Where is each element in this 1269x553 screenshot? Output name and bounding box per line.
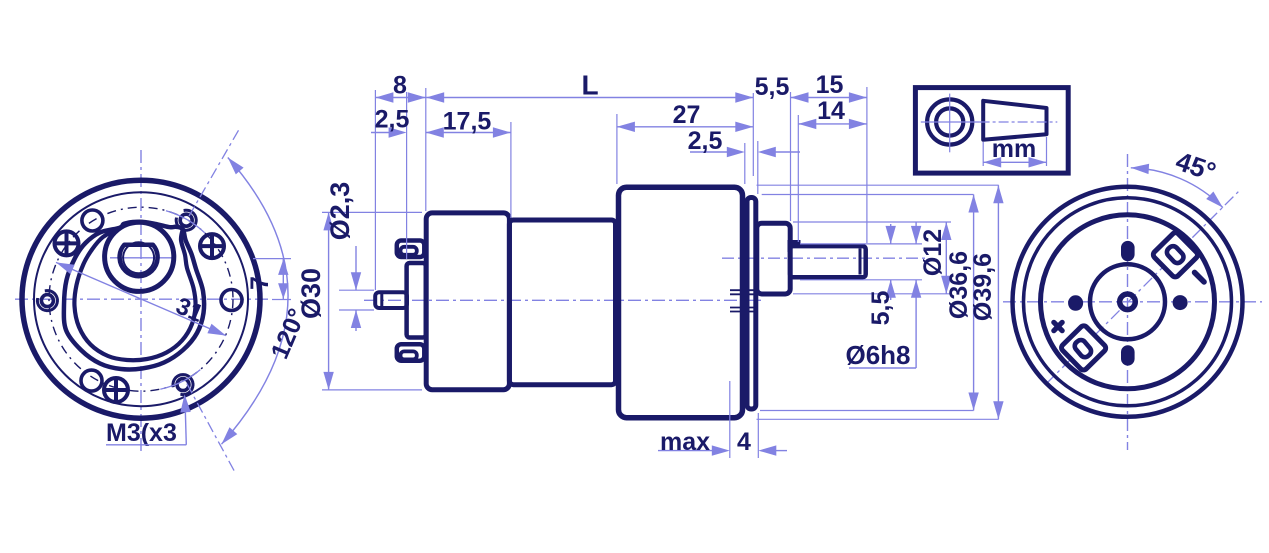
gearbox body — [619, 187, 743, 418]
label 27 — [673, 101, 701, 129]
rear shaft — [375, 292, 407, 308]
svg-text:7: 7 — [246, 276, 274, 290]
svg-text:8: 8 — [393, 72, 407, 100]
ext line gearbox bottom — [757, 418, 999, 420]
svg-text:27: 27 — [673, 101, 701, 129]
ext line shaft end — [866, 87, 868, 243]
output axis centerline — [722, 257, 928, 259]
motor can circle — [1041, 215, 1215, 389]
bolt circle (PCD 31) dashed — [49, 207, 233, 391]
terminal slot negative — [1165, 244, 1186, 265]
svg-text:max: max — [660, 428, 710, 456]
svg-text:4: 4 — [737, 428, 751, 456]
svg-text:15: 15 — [816, 71, 844, 99]
gear cavity inner step arc — [74, 228, 195, 361]
lower terminal tab — [397, 344, 425, 361]
ext line gearbox top — [757, 184, 999, 186]
output shaft step — [790, 242, 799, 252]
terminal slot positive — [1073, 338, 1093, 359]
ext lines max 4 — [730, 381, 759, 458]
cone centerline — [980, 121, 1058, 123]
label 4 — [737, 428, 751, 456]
motor rear outer circle — [1013, 187, 1243, 417]
ext lines rear shaft dia — [339, 290, 374, 310]
ext line gearbox right — [744, 143, 746, 184]
label max — [660, 428, 710, 456]
label M3(x3 — [106, 419, 177, 447]
left view horizontal centerline — [15, 298, 268, 300]
svg-text:5,5: 5,5 — [867, 291, 895, 326]
radial centerline to bottom M3 — [187, 384, 234, 471]
ext lines motor diameter — [322, 212, 422, 390]
label 31 — [172, 292, 207, 327]
ext line flange bottom — [760, 410, 974, 412]
label O39,6 — [969, 253, 997, 321]
through hole H2 — [221, 290, 242, 311]
dimension 14 — [798, 119, 867, 129]
projection symbol circles — [927, 99, 972, 144]
right view vertical centerline — [1127, 154, 1129, 450]
output bearing boss — [757, 223, 790, 294]
label O2,3 — [325, 182, 355, 241]
ext lines for 7 — [253, 259, 291, 300]
svg-text:Ø39,6: Ø39,6 — [969, 253, 997, 321]
vent slot west — [1068, 295, 1083, 311]
output shaft chamfer line — [859, 249, 862, 275]
label 2,5 flange — [688, 127, 723, 155]
terminal end cap — [407, 263, 426, 338]
terminal square positive — [1060, 324, 1107, 371]
label L — [581, 70, 598, 101]
mounting screw S1 (cross head) — [53, 230, 80, 257]
upper terminal slot — [401, 247, 417, 255]
mounting screw S3 (cross head) — [103, 377, 130, 404]
M3 hole bottom — [173, 375, 193, 395]
svg-text:Ø12: Ø12 — [919, 229, 947, 276]
projection symbol crosshair — [921, 94, 980, 153]
svg-text:5,5: 5,5 — [755, 73, 790, 101]
dimension O36,6 line — [968, 195, 978, 411]
svg-text:2,5: 2,5 — [375, 106, 410, 134]
M3 hole west — [37, 291, 57, 311]
dimension 7 line — [278, 259, 288, 300]
svg-text:mm: mm — [992, 135, 1036, 163]
output shaft — [790, 246, 866, 277]
shaft core thin circle — [123, 242, 154, 273]
mounting screw S2 (cross head) — [199, 233, 226, 260]
label O12 — [919, 229, 947, 276]
label 15 — [816, 71, 844, 99]
main axis centerline — [364, 299, 763, 301]
svg-text:2,5: 2,5 — [688, 127, 723, 155]
center shaft hole — [1120, 294, 1136, 310]
upper terminal tab — [397, 241, 425, 258]
radial centerline to top-right M3 — [189, 130, 239, 216]
motor body front section — [509, 220, 615, 385]
label 14 — [817, 97, 845, 125]
label O36,6 — [945, 251, 973, 319]
lower terminal slot — [401, 351, 417, 359]
projection cone — [983, 101, 1046, 140]
label mm — [992, 135, 1036, 163]
PCD arc segment through bottom M3 — [160, 370, 200, 390]
label 8 — [393, 72, 407, 100]
dimension O12 line — [941, 222, 951, 294]
units box frame — [915, 88, 1068, 174]
svg-text:17,5: 17,5 — [443, 108, 492, 136]
dimension 15 — [791, 92, 867, 102]
motor rear rim circle — [1024, 198, 1232, 406]
ext line motor face — [425, 88, 427, 211]
output bearing boss circle — [105, 222, 174, 291]
cone ext lines — [983, 137, 1046, 166]
vent slot east — [1173, 295, 1188, 310]
dimension O39,6 line — [993, 185, 1003, 419]
svg-text:Ø6h8: Ø6h8 — [845, 340, 910, 370]
output D-shaft with flat — [120, 245, 158, 276]
right view horizontal centerline — [1003, 301, 1262, 303]
vent slot north — [1121, 241, 1135, 261]
rear shaft chamfer line — [380, 294, 383, 307]
ext line 17.5 right — [510, 122, 512, 218]
ext line gearbox left — [616, 114, 618, 184]
through hole H1 — [82, 210, 103, 231]
hidden bearing marks — [730, 290, 754, 311]
dimension 5,5 shaft — [886, 224, 896, 300]
dimension 2,5 rear — [371, 127, 407, 137]
right view 45deg centerline — [1046, 190, 1241, 385]
svg-text:14: 14 — [817, 97, 845, 125]
svg-text:Ø30: Ø30 — [296, 268, 326, 319]
dimension 17,5 — [426, 127, 511, 137]
label 45deg — [1172, 146, 1220, 187]
label O6h8 — [845, 340, 910, 370]
label 5,5 top — [755, 73, 790, 101]
gear cavity crescent outline — [64, 222, 204, 370]
left view vertical centerline — [140, 150, 142, 452]
M3 hole top-right — [176, 210, 196, 230]
ext line shaft tip — [374, 90, 376, 290]
dimension 8 — [375, 92, 425, 102]
label 5,5 shaft — [867, 291, 895, 326]
ext line flange top — [762, 194, 974, 196]
ext line shaft step — [797, 115, 799, 242]
dimension L — [426, 92, 753, 102]
dimension O2,3 line — [351, 246, 361, 331]
vent slot south — [1121, 345, 1135, 365]
dimension 27 — [617, 122, 753, 132]
svg-text:Ø2,3: Ø2,3 — [325, 182, 355, 241]
bearing boss circle — [1090, 264, 1165, 339]
dimension max 4 — [658, 445, 787, 455]
output shaft centerline (left view) — [110, 257, 174, 259]
label 7 — [246, 276, 274, 290]
dimension 2,5 flange — [690, 147, 800, 157]
PCD arc segment through top-right M3 — [166, 211, 205, 233]
svg-text:M3(x3: M3(x3 — [106, 419, 177, 447]
terminal square negative — [1152, 231, 1199, 278]
plus sign — [1050, 319, 1066, 335]
ext lines shaft dia — [800, 244, 922, 280]
ext line boss face — [790, 92, 792, 221]
dimension O30 line — [323, 212, 333, 390]
label O30 — [296, 268, 326, 319]
gearbox housing outer circle — [22, 180, 260, 418]
cone width dimension — [983, 157, 1046, 167]
minus sign — [1191, 269, 1208, 286]
ext line flange right — [757, 141, 759, 194]
ext line L right — [752, 93, 754, 176]
ext lines boss dia — [793, 222, 951, 294]
M3 leader line — [106, 394, 191, 445]
label 2,5 rear — [375, 106, 410, 134]
label 120deg — [266, 305, 312, 364]
rear flange plate — [747, 198, 756, 410]
45-degree dimension arc — [1131, 164, 1223, 208]
gearbox housing inner rim circle — [34, 192, 248, 406]
120-degree dimension arc — [222, 158, 289, 445]
svg-text:L: L — [581, 70, 598, 101]
through hole H3 — [81, 370, 102, 391]
label 17,5 — [443, 108, 492, 136]
motor body rear section — [426, 213, 509, 390]
dimension 31 line — [56, 262, 226, 335]
ext line end cap face — [406, 92, 408, 259]
dimension O6h8 leader — [849, 222, 921, 368]
